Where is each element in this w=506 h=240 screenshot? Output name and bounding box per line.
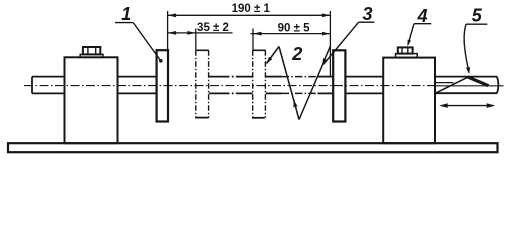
svg-text:3: 3	[362, 4, 372, 24]
svg-text:1: 1	[121, 4, 131, 24]
svg-text:35 ± 2: 35 ± 2	[197, 22, 229, 34]
svg-text:190 ± 1: 190 ± 1	[232, 3, 271, 15]
svg-text:4: 4	[416, 6, 427, 26]
svg-text:5: 5	[472, 5, 483, 25]
svg-text:2: 2	[291, 44, 302, 64]
svg-text:90 ± 5: 90 ± 5	[278, 22, 310, 34]
